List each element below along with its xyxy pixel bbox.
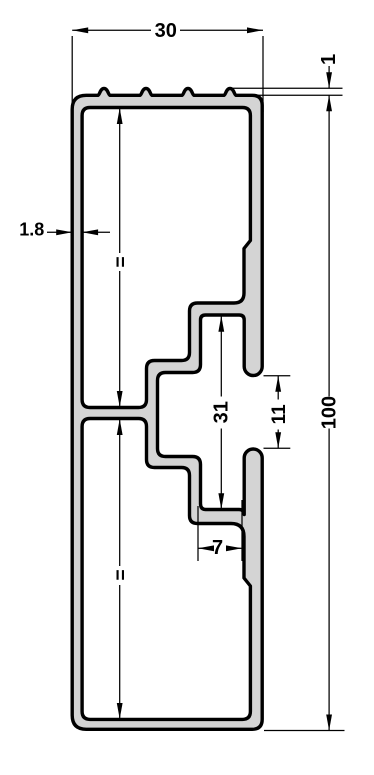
dimension 11 : dimension line + arrows [277, 376, 279, 400]
svg-text:=: = [111, 569, 132, 580]
dimension 100 : bottom extension line [264, 730, 345, 732]
dimension 1.8 : leader lines + arrows (wall thickness) [47, 231, 72, 233]
equal mark dimension, bottom cavity : line + arrows [119, 419, 121, 566]
dimension 31 : dimension line + arrows [220, 316, 222, 397]
svg-text:1: 1 [318, 54, 340, 65]
svg-text:30: 30 [155, 20, 177, 42]
dimension 30 : extension line left [71, 36, 73, 108]
svg-text:1.8: 1.8 [19, 219, 44, 239]
dimension 1 : extension lines (rib height) [232, 87, 343, 89]
dimension 7 : extension lines [197, 506, 199, 561]
profile outer body (aluminium extrusion cross-section, gray fill) [72, 88, 262, 729]
top cavity (hollow chamber) [82, 108, 250, 408]
dimension 1 : dimension line + arrows [328, 66, 330, 88]
dimension 30 : dimension line [72, 29, 151, 31]
dimension 100 : dimension line [328, 95, 330, 396]
bottom cavity (hollow chamber) [82, 419, 250, 720]
svg-text:11: 11 [269, 404, 290, 425]
svg-text:=: = [111, 256, 132, 267]
svg-text:100: 100 [319, 396, 341, 429]
dimension 7 : dimension line + arrows [198, 547, 208, 549]
svg-text:31: 31 [211, 401, 233, 423]
equal mark dimension, top cavity : line + arrows [119, 108, 121, 253]
dimension 100 : bottom arrowhead [326, 715, 332, 731]
svg-text:7: 7 [212, 537, 223, 559]
dimension 30 : arrowheads [72, 27, 88, 33]
dimension 11 : extension lines [264, 375, 291, 377]
dimension 30 : extension line right [262, 36, 264, 112]
